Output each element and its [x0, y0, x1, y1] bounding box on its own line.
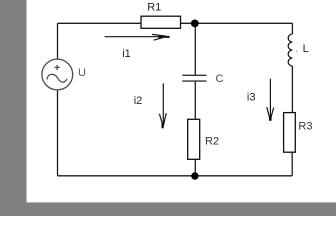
svg-text:i2: i2 [134, 95, 143, 107]
svg-text:U: U [78, 67, 86, 79]
svg-text:i3: i3 [247, 91, 256, 103]
svg-text:L: L [303, 43, 309, 55]
svg-text:R3: R3 [298, 121, 312, 133]
svg-text:R1: R1 [147, 2, 161, 14]
svg-text:C: C [216, 73, 224, 85]
svg-text:i1: i1 [122, 48, 131, 60]
svg-text:R2: R2 [205, 136, 219, 148]
